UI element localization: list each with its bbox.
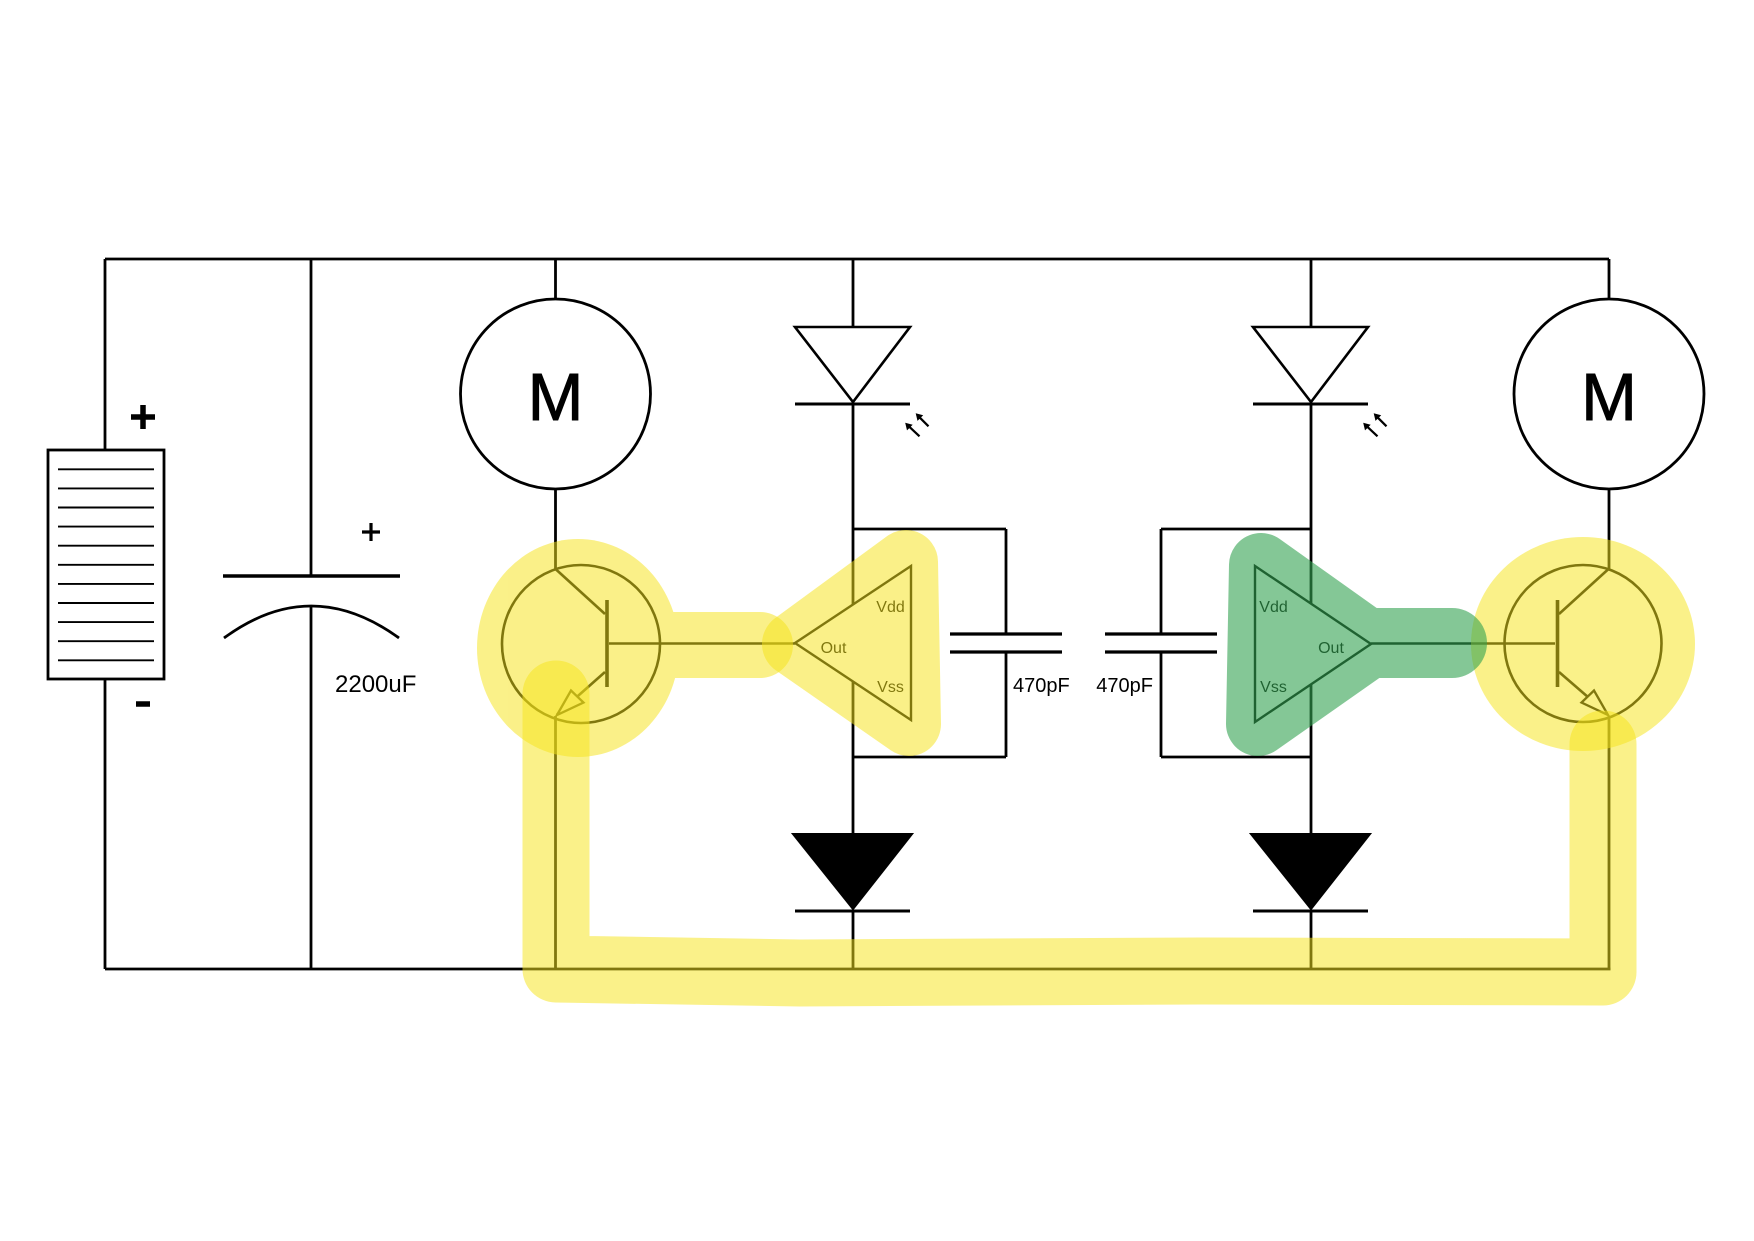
diode D3 xyxy=(793,834,912,911)
wire LED D1 anode xyxy=(852,259,855,327)
LED D2 light arrows xyxy=(1363,413,1386,436)
wire transistor Q1 emitter to bottom rail xyxy=(554,716,557,969)
motor M2 xyxy=(1514,299,1704,489)
highlight yellow over inverter U1 xyxy=(794,562,909,724)
capacitor C2 470pF xyxy=(950,634,1062,652)
capacitor C3 470pF xyxy=(1105,634,1217,652)
wire U1 Vss to diode D3 anode xyxy=(852,682,855,833)
wire motor M1 to transistor Q1 collector xyxy=(554,489,557,569)
capacitor C1 plus polarity mark xyxy=(362,523,380,541)
wire Q2 base to U2 output xyxy=(1371,642,1555,645)
svg-text:2200uF: 2200uF xyxy=(335,671,416,698)
wire U2 Vdd branch top xyxy=(1161,528,1311,531)
transistor Q2 xyxy=(1505,565,1662,722)
battery B1 xyxy=(48,450,164,679)
wire motor M2 top lead xyxy=(1608,259,1611,299)
svg-text:470pF: 470pF xyxy=(1013,675,1070,697)
wire C2 lower lead xyxy=(1005,652,1008,757)
svg-text:470pF: 470pF xyxy=(1096,675,1153,697)
capacitor C1 2200uF xyxy=(223,576,400,638)
wire C2 upper lead xyxy=(1005,529,1008,634)
wire U2 Vss to diode D4 anode xyxy=(1310,684,1313,833)
wire bottom rail xyxy=(105,968,1611,971)
highlight green over inverter U2 and its output wire xyxy=(1258,565,1452,724)
wire LED D2 anode xyxy=(1310,259,1313,327)
battery minus label xyxy=(136,701,150,707)
inverter U1 xyxy=(795,566,911,720)
wire LED D1 cathode to U1 Vdd xyxy=(852,404,855,604)
wire C3 lower lead xyxy=(1160,652,1163,757)
LED D1 xyxy=(795,327,910,404)
wire Q1 base to U1 output xyxy=(609,642,795,645)
inverter U2 xyxy=(1255,566,1371,722)
wire capacitor C1 top lead xyxy=(310,259,313,576)
svg-text:M: M xyxy=(1581,360,1637,435)
svg-text:M: M xyxy=(528,360,584,435)
battery plus label xyxy=(131,405,155,429)
LED D2 xyxy=(1253,327,1368,404)
transistor Q1 xyxy=(502,565,660,723)
wire diode D3 cathode to bottom rail xyxy=(852,911,855,969)
wire LED D2 cathode to U2 Vdd xyxy=(1310,404,1313,604)
wire battery negative lead xyxy=(104,679,107,969)
wire motor M2 to transistor Q2 collector xyxy=(1608,489,1611,569)
LED D1 light arrows xyxy=(905,413,928,436)
wire U1 Vss branch bottom xyxy=(853,756,1006,759)
highlight yellow over transistor Q2 xyxy=(1471,537,1695,751)
wire diode D4 cathode to bottom rail xyxy=(1310,911,1313,969)
diode D4 xyxy=(1251,834,1370,911)
motor M1 xyxy=(461,299,651,489)
wire battery positive lead xyxy=(104,259,107,450)
wire transistor Q2 emitter to bottom rail xyxy=(1608,716,1611,969)
wire U2 Vss branch bottom xyxy=(1161,756,1311,759)
highlight yellow over transistor Q1 and its base wire xyxy=(477,539,760,757)
highlight yellow along emitter wires and bottom rail xyxy=(556,694,1603,973)
wire capacitor C1 bottom lead xyxy=(310,606,313,969)
wire U1 Vdd branch top xyxy=(853,528,1006,531)
wire C3 upper lead xyxy=(1160,529,1163,634)
wire motor M1 top lead xyxy=(554,259,557,299)
wire top rail xyxy=(105,258,1609,261)
